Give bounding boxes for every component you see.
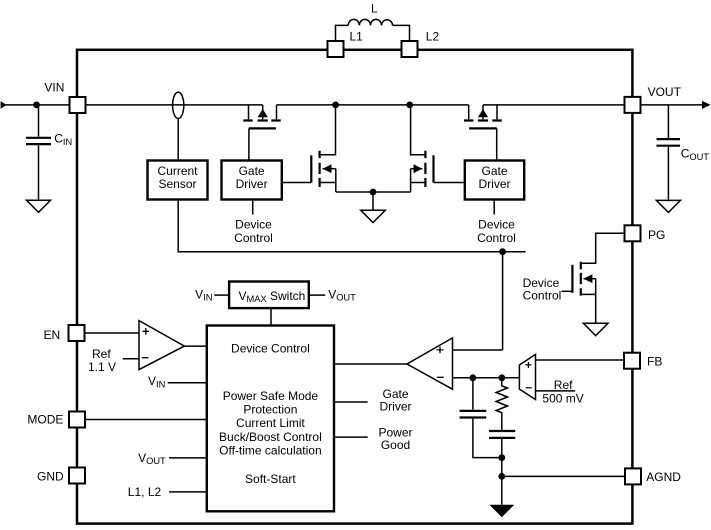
svg-text:Power Safe Mode: Power Safe Mode	[223, 389, 319, 403]
svg-text:Device Control: Device Control	[231, 341, 310, 355]
svg-text:500 mV: 500 mV	[542, 392, 583, 406]
svg-text:L1: L1	[350, 30, 364, 44]
svg-text:Ref: Ref	[554, 378, 573, 392]
svg-text:Off-time calculation: Off-time calculation	[219, 443, 322, 457]
svg-text:Device: Device	[478, 217, 515, 231]
svg-text:FB: FB	[647, 355, 662, 369]
svg-text:Control: Control	[523, 289, 562, 303]
svg-text:Current Limit: Current Limit	[236, 416, 305, 430]
svg-text:MODE: MODE	[27, 413, 63, 427]
svg-text:Good: Good	[381, 438, 410, 452]
svg-text:Buck/Boost Control: Buck/Boost Control	[219, 430, 322, 444]
svg-text:Protection: Protection	[243, 403, 297, 417]
svg-text:VOUT: VOUT	[648, 85, 682, 99]
svg-text:Device: Device	[235, 217, 272, 231]
svg-text:PG: PG	[648, 228, 665, 242]
svg-text:1.1 V: 1.1 V	[88, 360, 116, 374]
svg-text:Soft-Start: Soft-Start	[245, 472, 296, 486]
svg-text:Control: Control	[477, 231, 516, 245]
svg-text:EN: EN	[44, 328, 61, 342]
svg-text:L: L	[371, 2, 378, 16]
svg-text:Driver: Driver	[236, 177, 268, 191]
svg-text:VIN: VIN	[44, 81, 64, 95]
svg-text:Control: Control	[234, 231, 273, 245]
svg-text:L1, L2: L1, L2	[128, 485, 162, 499]
svg-text:L2: L2	[426, 30, 440, 44]
svg-text:AGND: AGND	[646, 470, 681, 484]
svg-text:GND: GND	[37, 469, 64, 483]
svg-text:Driver: Driver	[380, 400, 412, 414]
svg-text:Sensor: Sensor	[158, 177, 196, 191]
svg-text:Driver: Driver	[479, 177, 511, 191]
